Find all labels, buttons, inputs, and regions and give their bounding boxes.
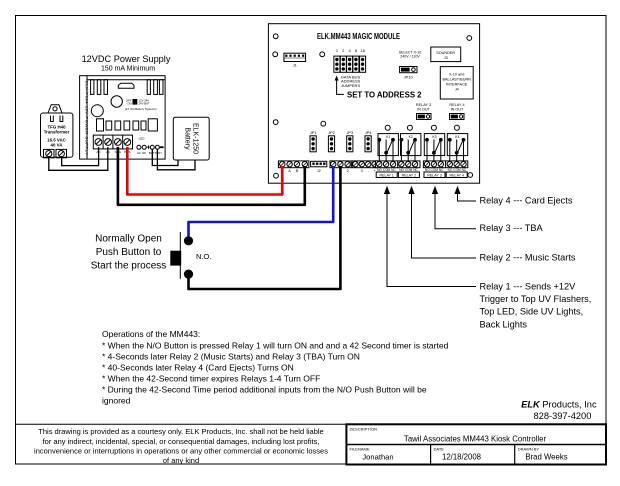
svg-text:828-397-4200: 828-397-4200: [533, 411, 591, 421]
svg-text:3: 3: [361, 169, 363, 173]
svg-text:Battery: Battery: [184, 127, 191, 150]
svg-text:for any indirect, incidental,: for any indirect, incidental, special, o…: [43, 437, 320, 446]
svg-text:ELK-1250: ELK-1250: [192, 123, 199, 154]
svg-text:J4: J4: [455, 88, 459, 92]
svg-text:240V / 110V: 240V / 110V: [400, 55, 420, 59]
relay terminal block RELAY4: [446, 161, 468, 178]
data bus address jumpers note: [341, 75, 361, 88]
PSU mode jumper block: [125, 99, 157, 112]
svg-text:N.O.: N.O.: [196, 252, 211, 261]
svg-text:X-10 and: X-10 and: [449, 73, 464, 77]
svg-text:K4: K4: [455, 135, 459, 139]
relay 3 in/out jumper: [416, 103, 431, 120]
svg-text:of any kind: of any kind: [163, 456, 199, 465]
svg-text:LED: LED: [139, 137, 146, 141]
svg-text:+: +: [374, 169, 376, 173]
mounting hole top-right: [467, 36, 472, 41]
svg-text:Jonathan: Jonathan: [362, 453, 393, 462]
svg-text:JUMPERS: JUMPERS: [341, 83, 360, 88]
mounting hole top-left: [273, 34, 278, 39]
wire: red +12V from PSU to board: [127, 147, 282, 195]
svg-text:12/18/2008: 12/18/2008: [442, 453, 481, 462]
svg-text:Relay 4 --- Card Ejects: Relay 4 --- Card Ejects: [480, 196, 573, 206]
svg-text:SET TO ADDRESS 2: SET TO ADDRESS 2: [347, 90, 422, 99]
address jumper block JP5-JP9: [334, 56, 366, 72]
svg-text:Top LED, Side UV Lights,: Top LED, Side UV Lights,: [480, 307, 584, 317]
jumper JP2: [328, 131, 335, 152]
wire: battery negative to PSU: [152, 150, 178, 166]
power supply PS1 (ELK P624): [80, 76, 166, 159]
callout: relay 4: [454, 186, 572, 206]
svg-text:RELAY 4: RELAY 4: [449, 173, 463, 177]
svg-text:IN OUT: IN OUT: [451, 108, 465, 112]
mounting hole lower-left-a: [273, 120, 278, 125]
terminal block TB1 (power/data): [278, 161, 309, 173]
battery BT1 (ELK-1250): [173, 117, 209, 160]
svg-text:J3: J3: [444, 56, 448, 60]
svg-text:J2: J2: [317, 169, 321, 173]
title block: [16, 424, 607, 464]
relay K4: [447, 134, 467, 161]
wire: battery positive to PSU: [157, 150, 195, 170]
address jumper labels 1 2 4 8 16: [336, 48, 366, 53]
svg-text:JP2: JP2: [328, 131, 335, 135]
svg-text:DATE: DATE: [434, 447, 445, 452]
svg-text:ignored: ignored: [102, 395, 131, 405]
svg-text:ON: ON: [127, 102, 131, 106]
disclaimer note: [34, 427, 328, 465]
jumper JP10: [400, 67, 417, 80]
push button S1 (normally open): [170, 232, 211, 279]
svg-text:ELK.MM443 MAGIC MODULE: ELK.MM443 MAGIC MODULE: [317, 31, 400, 41]
svg-text:AC OK: AC OK: [137, 151, 146, 155]
svg-text:16: 16: [360, 48, 365, 53]
svg-text:JP3: JP3: [347, 131, 354, 135]
PSU LED indicators: [137, 137, 146, 156]
terminal block TB3: [352, 161, 377, 173]
callout: relay 3: [432, 186, 544, 233]
svg-text:ELK-P624 12V POWER SUPPLY: ELK-P624 12V POWER SUPPLY: [85, 81, 90, 155]
arrow: set to address 2: [335, 76, 423, 100]
header J2: [311, 161, 327, 173]
jumper JP1: [310, 131, 317, 152]
relay terminal block RELAY2: [398, 161, 420, 178]
svg-text:* 4-Seconds later Relay 2 (Mus: * 4-Seconds later Relay 2 (Music Starts)…: [102, 351, 360, 361]
label: 12VDC Power Supply: [82, 54, 171, 73]
wire: transformer terminal 1 to PSU AC input 2: [49, 147, 108, 170]
svg-text:Push Button to: Push Button to: [96, 247, 162, 258]
wire: black return from push button to board: [189, 166, 341, 289]
svg-text:Operations of the MM443:: Operations of the MM443:: [102, 329, 200, 339]
svg-text:DRAWN BY: DRAWN BY: [518, 447, 540, 452]
wire: blue from board input to push button: [189, 166, 334, 238]
sounder header J3: [431, 47, 461, 62]
svg-text:SOUNDER: SOUNDER: [436, 51, 455, 55]
relay K2: [400, 134, 421, 161]
svg-text:K2: K2: [409, 135, 413, 139]
wire: black negative from PSU to board: [118, 147, 305, 205]
X-10 interface header J4: [440, 67, 473, 99]
callout: relay 2: [408, 186, 575, 263]
svg-text:IN OUT: IN OUT: [417, 108, 431, 112]
svg-text:* 40-Seconds later Relay 4 (Ca: * 40-Seconds later Relay 4 (Card Ejects)…: [102, 362, 294, 372]
callout: relay 1: [384, 186, 591, 330]
svg-text:* When the N/O Button is press: * When the N/O Button is pressed Relay 1…: [102, 340, 449, 350]
svg-text:Relay 3 --- TBA: Relay 3 --- TBA: [480, 223, 544, 233]
relay 4 in/out jumper: [449, 103, 464, 120]
svg-text:Start the process: Start the process: [91, 261, 167, 272]
operations note text: [102, 329, 449, 405]
svg-text:inconvenience or interruptions: inconvenience or interruptions in operat…: [34, 446, 328, 455]
PSU terminal block: [93, 135, 132, 149]
svg-text:150 mA Minimum: 150 mA Minimum: [101, 66, 155, 73]
svg-text:RELAY 3: RELAY 3: [427, 173, 441, 177]
svg-text:JP4: JP4: [365, 131, 372, 135]
svg-text:ELK Products, Inc: ELK Products, Inc: [521, 400, 597, 410]
svg-text:(24 Volt Battery Systems): (24 Volt Battery Systems): [125, 107, 157, 111]
wire: transformer terminal 2 to PSU AC input 1: [62, 147, 99, 166]
svg-text:DESCRIPTION: DESCRIPTION: [350, 427, 377, 432]
svg-text:Trigger to Top UV Flashers,: Trigger to Top UV Flashers,: [480, 294, 592, 304]
terminal block TB2 (inputs): [330, 161, 351, 173]
relay terminal block RELAY1: [376, 161, 398, 178]
svg-text:K1: K1: [386, 135, 390, 139]
mounting hole mid-left: [273, 52, 278, 57]
svg-text:RELAY 3: RELAY 3: [416, 103, 431, 107]
svg-text:INTERFACE: INTERFACE: [446, 83, 468, 87]
push button label: [91, 234, 167, 272]
relay K1: [378, 134, 399, 161]
transformer T1 (TFG H40 plug-in transformer): [41, 105, 73, 158]
svg-text:RELAY 2: RELAY 2: [402, 173, 416, 177]
svg-text:JP1: JP1: [310, 131, 317, 135]
mounting hole bottom-right: [468, 173, 473, 178]
svg-text:24V BAT: 24V BAT: [139, 102, 150, 106]
svg-text:12VDC Power Supply: 12VDC Power Supply: [82, 54, 171, 64]
svg-text:Tawil Associates MM443 Kiosk C: Tawil Associates MM443 Kiosk Controller: [404, 435, 547, 444]
svg-text:This drawing is provided as a: This drawing is provided as a courtesy o…: [38, 427, 323, 436]
jumper JP3: [347, 131, 354, 152]
relay K3: [424, 134, 444, 161]
svg-text:40 VA: 40 VA: [51, 143, 64, 148]
svg-text:BALLAST/BURN: BALLAST/BURN: [442, 78, 471, 82]
holes above relays: [385, 125, 459, 130]
relay terminal block RELAY3: [423, 161, 445, 178]
svg-text:JP10: JP10: [404, 74, 414, 79]
svg-text:Normally Open: Normally Open: [95, 234, 162, 245]
svg-text:* During the 42-Second Time pe: * During the 42-Second Time period addit…: [102, 384, 427, 394]
svg-text:K3: K3: [432, 135, 436, 139]
svg-text:2: 2: [347, 169, 349, 173]
jumper JP4: [365, 131, 372, 152]
select jumper note: [399, 51, 422, 59]
PSU battery terminals: [147, 144, 164, 155]
svg-text:Transformer: Transformer: [44, 130, 70, 135]
svg-text:Back Lights: Back Lights: [480, 319, 528, 329]
svg-text:Relay 1 --- Sends +12V: Relay 1 --- Sends +12V: [480, 281, 577, 291]
svg-text:* When the 42-Second timer exp: * When the 42-Second timer expires Relay…: [102, 373, 320, 383]
mounting hole bottom-left: [274, 173, 279, 178]
mounting hole lower-left-b: [321, 121, 326, 126]
mounting hole mid-center: [320, 52, 325, 57]
module board U1: ELK-MM443 outline: [268, 24, 479, 184]
svg-text:RELAY 1: RELAY 1: [379, 173, 393, 177]
svg-text:Brad Weeks: Brad Weeks: [525, 453, 567, 462]
svg-text:BATTERY: BATTERY: [149, 151, 163, 155]
header J1: [284, 53, 306, 67]
svg-text:RELAY 4: RELAY 4: [449, 103, 464, 107]
svg-text:FILENAME: FILENAME: [350, 447, 370, 452]
svg-text:Relay 2 --- Music Starts: Relay 2 --- Music Starts: [480, 253, 576, 263]
ELK products signature: [521, 400, 597, 422]
